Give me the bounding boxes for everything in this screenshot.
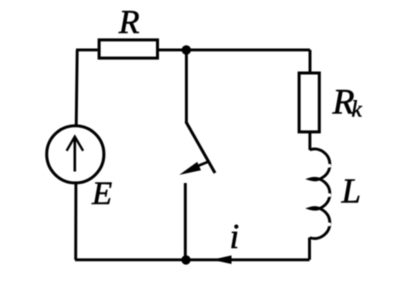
svg-text:i: i [230, 217, 240, 256]
svg-text:R: R [118, 4, 140, 41]
svg-text:E: E [91, 176, 112, 212]
svg-text:k: k [352, 97, 363, 122]
svg-text:L: L [341, 172, 361, 211]
